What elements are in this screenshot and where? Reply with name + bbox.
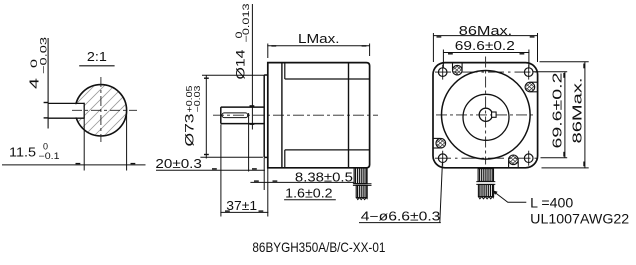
svg-text:86Max.: 86Max. (459, 23, 512, 38)
svg-text:0: 0 (29, 59, 39, 68)
svg-text:−0.03: −0.03 (39, 37, 49, 74)
svg-text:86BYGH350A/B/C-XX-01: 86BYGH350A/B/C-XX-01 (252, 239, 385, 255)
svg-text:69.6±0.2: 69.6±0.2 (551, 72, 565, 148)
svg-text:20±0.3: 20±0.3 (155, 157, 202, 171)
svg-text:Ø73: Ø73 (183, 113, 197, 146)
svg-text:1.6±0.2: 1.6±0.2 (285, 186, 332, 200)
svg-text:4−ø6.6±0.3: 4−ø6.6±0.3 (361, 210, 441, 224)
svg-text:86Max.: 86Max. (571, 78, 585, 144)
svg-text:37±1: 37±1 (226, 199, 257, 213)
svg-text:L =400: L =400 (530, 195, 573, 210)
svg-text:−0.013: −0.013 (241, 4, 251, 43)
svg-text:69.6±0.2: 69.6±0.2 (455, 39, 515, 53)
svg-text:−0.03: −0.03 (193, 85, 202, 113)
svg-text:−0.1: −0.1 (39, 151, 60, 161)
svg-text:8.38±0.5: 8.38±0.5 (295, 170, 353, 184)
svg-text:11.5: 11.5 (9, 146, 36, 160)
svg-text:4: 4 (27, 78, 42, 89)
svg-text:2:1: 2:1 (87, 50, 107, 64)
svg-text:UL1007AWG22: UL1007AWG22 (530, 212, 629, 227)
svg-text:LMax.: LMax. (298, 32, 340, 46)
